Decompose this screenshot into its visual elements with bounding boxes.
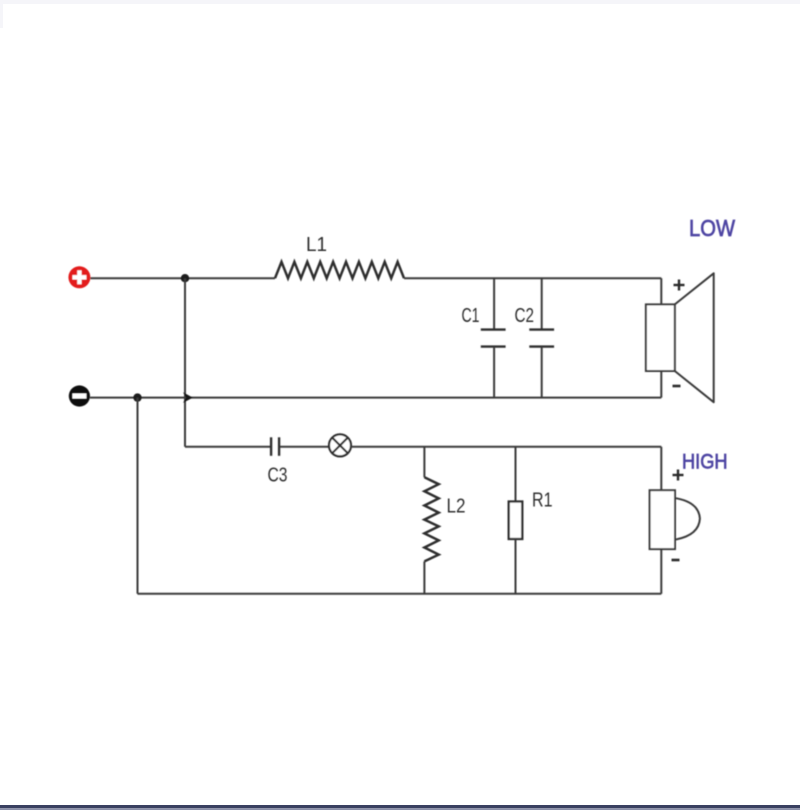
svg-text:LOW: LOW [689,215,735,241]
wire: LOW speaker - lead [660,371,662,398]
capacitor C2 [529,278,554,397]
wire: + terminal to L1 [90,277,275,279]
HIGH speaker dome [676,498,700,539]
junction node on - rail [133,393,141,401]
HIGH speaker + mark [673,470,684,481]
capacitor C1 [481,278,506,397]
wire: L2 branch vertical bottom [423,561,425,593]
wire: HIGH speaker + lead [660,447,662,490]
wire: C3 to lamp [280,446,330,448]
wire: bottom rail [138,593,662,595]
wire: HIGH speaker - lead [660,549,662,594]
capacitor C3 [271,437,279,456]
wire: LOW speaker + lead [660,278,662,304]
wire: R1 branch vertical bottom [515,539,517,594]
wire: - terminal rail [90,397,661,399]
resistor R1 [509,502,523,540]
svg-text:L2: L2 [447,496,466,518]
wire: L2 branch vertical top [423,447,425,478]
wire: R1 branch vertical top [515,447,517,502]
arrow marker at rail crossing [183,392,193,403]
inductor L1 [275,262,404,278]
terminal - (negative input) [69,385,90,406]
LOW speaker + mark [674,280,685,291]
faint top edge tint [0,0,800,4]
inductor L2 [424,477,438,561]
HIGH speaker body [650,490,675,549]
junction node on + rail [181,274,189,282]
wire: L1 to LOW speaker branch [404,277,661,279]
svg-text:L1: L1 [306,234,327,256]
svg-text:C1: C1 [462,305,480,327]
LOW speaker - mark [673,385,681,388]
LOW speaker body [646,304,675,371]
bottom page divider line [0,805,800,808]
lamp (bulb) protection [329,434,351,456]
svg-text:HIGH: HIGH [682,450,728,474]
svg-text:C2: C2 [515,305,535,327]
wire: vertical high-pass feed from + junction [184,278,186,447]
wire: lamp to HIGH speaker branch [351,446,661,448]
wire: vertical from - junction to bottom rail [137,398,139,594]
wire: high-pass branch to C3 [185,446,271,448]
svg-text:C3: C3 [268,465,288,487]
HIGH speaker - mark [672,559,680,562]
faint left edge tint [0,0,3,28]
LOW speaker cone [675,273,714,402]
svg-text:R1: R1 [532,490,553,512]
terminal + (positive input) [68,266,90,288]
